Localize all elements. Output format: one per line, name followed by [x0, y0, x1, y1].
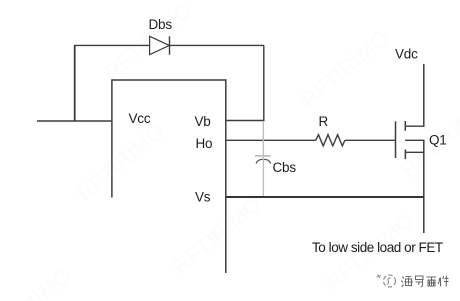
wire: source riser down through Vs junction: [423, 140, 425, 233]
svg-text:Dbs: Dbs: [149, 17, 173, 32]
wire: left riser from Vcc wire up to diode anode rail: [74, 45, 76, 121]
svg-text:To low side load or FET: To low side load or FET: [312, 240, 443, 255]
svg-text:RFTIRIMO: RFTIRIMO: [99, 0, 197, 85]
transistor Q1 (N-MOSFET): [396, 121, 425, 159]
wire: Vs rail from IC to source riser: [226, 196, 425, 198]
svg-text:Vcc: Vcc: [129, 111, 151, 126]
svg-text:Cbs: Cbs: [273, 160, 297, 175]
svg-text:RFTIRIMO: RFTIRIMO: [72, 118, 170, 205]
svg-text:Vb: Vb: [195, 114, 211, 129]
capacitor Cbs: curved plate: [256, 159, 271, 163]
capacitor Cbs: top lead from Vb node: [262, 121, 264, 155]
wire: Vb pin to riser: [226, 120, 265, 122]
label Dbs: [149, 17, 173, 32]
label Vdc: [395, 47, 418, 62]
svg-text:Vdc: Vdc: [395, 47, 418, 62]
svg-text:RFTIRIMO: RFTIRIMO: [0, 263, 76, 301]
svg-text:Vs: Vs: [195, 190, 211, 205]
pin label Ho: [196, 136, 213, 151]
label Q1: [429, 133, 447, 148]
driver IC box (Vcc/Vb/Ho/Vs): [112, 79, 226, 273]
svg-text:R: R: [319, 114, 329, 129]
wire: Vcc input stub: [37, 120, 112, 122]
net Vdc: supply lead down to drain: [423, 64, 425, 127]
pin label Vb: [195, 114, 211, 129]
pin label Vs: [195, 190, 211, 205]
watermark logo: [377, 275, 396, 288]
diode Dbs: [150, 36, 170, 54]
wire: right riser from top rail down to Vb pin: [263, 45, 265, 120]
wire: top rail, anode side: [74, 44, 150, 46]
capacitor Cbs: flat plate: [255, 155, 271, 157]
svg-text:Q1: Q1: [429, 133, 447, 148]
wire: top rail, cathode side: [170, 44, 265, 46]
svg-text:Ho: Ho: [196, 136, 213, 151]
svg-text:RFTIRIMO: RFTIRIMO: [168, 191, 266, 278]
pin label Vcc: [129, 111, 151, 126]
label Cbs: [273, 160, 297, 175]
svg-text:RFTIRIMO: RFTIRIMO: [296, 25, 394, 112]
svg-text:RFTIRIMO: RFTIRIMO: [396, 95, 460, 182]
resistor R: [316, 135, 345, 146]
capacitor Cbs: bottom lead to Vs rail: [262, 157, 264, 197]
watermark text 海马硬件: [402, 276, 449, 288]
wire: Ho pin to resistor: [226, 139, 316, 141]
label R: [319, 114, 329, 129]
wire: resistor to gate: [345, 139, 396, 141]
node label: to low side load or FET: [312, 240, 443, 255]
